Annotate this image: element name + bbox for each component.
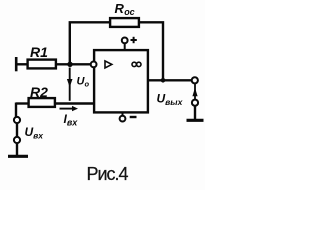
svg-text:R2: R2 (30, 84, 48, 100)
svg-text:Рис.4: Рис.4 (87, 164, 129, 184)
svg-text:R1: R1 (30, 44, 48, 60)
